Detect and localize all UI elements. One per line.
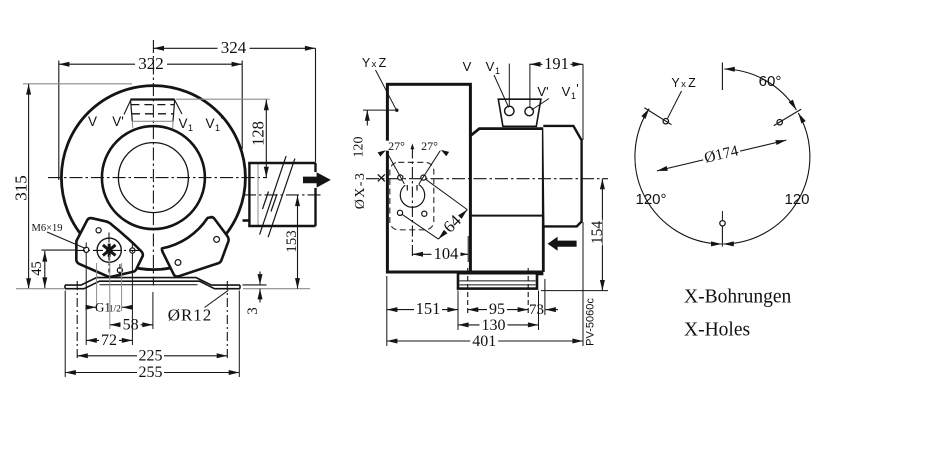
flange left edge	[248, 163, 250, 226]
extension line G-port left	[96, 263, 98, 311]
extension line plate right end	[238, 291, 240, 378]
G-port circle	[97, 238, 121, 262]
svg-text:324: 324	[221, 38, 247, 57]
extension line right of 324	[315, 48, 317, 162]
radial tick top	[721, 63, 723, 91]
extension line 191 left	[529, 64, 531, 108]
bolt hole top-right	[777, 120, 782, 125]
top port dashed line upper	[131, 104, 174, 106]
dim 72	[86, 332, 132, 349]
svg-text:128: 128	[248, 121, 267, 146]
centerline horizontal left view	[48, 177, 267, 179]
leader V-prime to terminal 2	[532, 99, 550, 111]
terminal 1	[505, 106, 514, 115]
svg-text:V': V'	[112, 114, 124, 129]
skid bolt centerline right	[527, 268, 529, 315]
leader M6x19	[47, 232, 86, 249]
duct break tick 2	[271, 194, 277, 212]
dim 324 horizontal	[153, 38, 315, 57]
svg-text:1: 1	[188, 123, 193, 133]
label V1-prime left view	[205, 113, 222, 133]
skid block	[458, 273, 537, 288]
leader YxZ middle	[376, 70, 397, 110]
svg-text:60°: 60°	[759, 73, 782, 90]
leader YxZ right	[668, 91, 682, 119]
svg-text:1/2: 1/2	[109, 305, 121, 315]
label V left view	[88, 114, 97, 129]
svg-text:': '	[220, 113, 223, 128]
extension line skid bottom right	[541, 290, 608, 292]
extension line plate bottom left	[16, 288, 64, 290]
dim 153 vertical	[284, 196, 300, 289]
dim 64 line	[438, 210, 467, 240]
dim 64 extension 1	[426, 179, 468, 209]
extension line plate left end	[64, 291, 66, 378]
leader port to V1	[175, 100, 183, 114]
cover plate rectangle	[387, 84, 470, 272]
svg-text:73: 73	[529, 302, 544, 318]
bolt slot centerline left	[76, 281, 78, 360]
svg-text:153: 153	[284, 230, 300, 253]
hole mark dot	[395, 109, 398, 112]
label 27deg left	[385, 139, 408, 153]
skid inner line 2	[460, 284, 536, 286]
angle arrow left	[378, 150, 386, 156]
label V-prime middle view	[537, 84, 548, 99]
skid bolt centerline left	[467, 268, 469, 315]
G-port star symbol	[103, 244, 116, 257]
extension line hole level 45	[42, 249, 81, 251]
duct break line 2	[268, 159, 295, 238]
label YxZ middle view	[362, 56, 387, 70]
svg-text:120: 120	[784, 191, 809, 208]
skid inner line 1	[460, 280, 536, 282]
label M6x19	[31, 223, 62, 234]
label X-Bohrungen	[684, 287, 791, 308]
duct bottom edge	[248, 225, 315, 227]
extension line port top right	[176, 98, 270, 100]
label V1 middle view	[486, 59, 500, 76]
dim 401	[387, 333, 583, 350]
svg-text:154: 154	[589, 221, 606, 245]
body top edge	[470, 129, 543, 136]
port bore dash left	[406, 185, 408, 191]
angle apex arrow	[411, 143, 415, 149]
label V1-prime middle view	[562, 81, 579, 101]
top port dashed line lower	[132, 113, 173, 115]
extension line plate top right	[243, 284, 267, 286]
svg-text:72: 72	[101, 332, 117, 349]
radial tick hole B	[774, 109, 801, 125]
dim 322 horizontal	[59, 54, 242, 73]
foot hole D	[130, 248, 135, 253]
svg-text:V: V	[178, 116, 187, 131]
centerline vertical left view	[152, 40, 154, 286]
dim 3 vertical	[245, 272, 261, 315]
svg-text:x: x	[681, 79, 686, 90]
svg-text:3: 3	[245, 307, 261, 315]
label V-prime left view	[112, 114, 124, 129]
svg-text:X-Holes: X-Holes	[684, 320, 750, 341]
svg-text:130: 130	[482, 317, 506, 334]
label diameter X-3	[353, 172, 368, 209]
svg-text:V: V	[562, 84, 571, 99]
foot hole E	[214, 237, 220, 243]
dim 64 extension 2	[402, 214, 439, 239]
svg-text:': '	[576, 81, 578, 96]
dim 255	[65, 364, 239, 381]
label 60deg	[759, 73, 782, 90]
terminal 2	[525, 107, 534, 116]
base plate bottom profile	[65, 281, 240, 289]
svg-text:45: 45	[29, 261, 45, 276]
label R12	[168, 306, 213, 325]
foot hole A	[96, 228, 101, 233]
foot hole B	[84, 247, 89, 252]
base plate right end	[239, 285, 241, 289]
label V middle view	[463, 59, 472, 74]
svg-text:x: x	[372, 59, 377, 70]
svg-text:V: V	[463, 59, 472, 74]
extension line port center	[109, 255, 111, 329]
machine centerline middle view	[366, 178, 608, 180]
svg-text:Z: Z	[688, 76, 696, 90]
dim 104	[412, 244, 468, 263]
extension line top of housing	[23, 83, 132, 85]
svg-text:V': V'	[537, 84, 548, 99]
bolt slot centerline right	[226, 281, 228, 360]
top port trapezoid	[131, 100, 175, 129]
leader R12	[205, 290, 229, 307]
base plate middle edge	[100, 284, 198, 286]
svg-text:255: 255	[139, 364, 163, 381]
svg-text:PV-5060c: PV-5060c	[584, 298, 596, 346]
body right edge	[542, 129, 545, 272]
foot centerline horizontal	[75, 249, 140, 251]
radial tick bottom	[721, 211, 723, 247]
svg-text:V: V	[205, 116, 214, 131]
svg-text:401: 401	[472, 333, 496, 350]
terminal box	[498, 99, 541, 126]
svg-text:V: V	[88, 114, 97, 129]
dim 58	[110, 316, 153, 333]
boss bottom edge	[243, 219, 250, 222]
extension line cover left bottom	[386, 276, 388, 346]
hole B centerline dash	[85, 243, 87, 249]
svg-text:1: 1	[571, 91, 576, 101]
extension line 191-401 right	[582, 64, 584, 346]
extension line 104 right	[467, 236, 469, 262]
angle line left	[386, 150, 405, 184]
svg-text:27°: 27°	[388, 139, 405, 153]
duct right edge	[314, 163, 316, 226]
extension line left 322	[58, 61, 60, 181]
svg-text:V: V	[486, 59, 495, 74]
dim 73	[529, 302, 558, 318]
angle line right	[419, 150, 441, 184]
svg-text:X-Bohrungen: X-Bohrungen	[684, 287, 791, 308]
duct break line 1	[260, 156, 287, 235]
dim 95	[468, 301, 529, 318]
dim 225	[77, 347, 227, 364]
dim 130	[458, 317, 539, 334]
foot centerline vertical	[108, 233, 110, 273]
dim G1-1/2	[87, 300, 131, 315]
svg-text:ØR12: ØR12	[168, 306, 213, 325]
label V1 left view	[178, 116, 193, 133]
svg-text:1: 1	[495, 66, 500, 76]
base plate left end	[64, 285, 66, 289]
label YxZ right view	[671, 76, 696, 90]
extension line body right bottom	[544, 279, 546, 315]
housing inner circle	[118, 143, 188, 213]
body joint line	[470, 215, 543, 217]
port bore circle	[400, 185, 424, 208]
duct top edge	[248, 162, 315, 164]
outlet flow arrow	[303, 172, 331, 187]
svg-text:104: 104	[434, 244, 459, 263]
svg-text:Y: Y	[671, 76, 680, 90]
leader V1 to terminal 1	[494, 75, 509, 108]
svg-text:225: 225	[139, 347, 163, 364]
housing mid circle	[102, 126, 205, 229]
silencer block	[543, 126, 581, 226]
extension line duct bottom right	[243, 288, 310, 290]
port bore dash right	[416, 185, 418, 191]
extension line hole D	[131, 254, 133, 346]
svg-text:27°: 27°	[421, 139, 438, 153]
label 120	[784, 191, 809, 208]
extension line skid left	[457, 291, 459, 331]
svg-text:Y: Y	[362, 56, 371, 70]
arc 60deg	[724, 69, 796, 110]
outlet centerline	[243, 194, 321, 196]
svg-text:Z: Z	[379, 56, 387, 70]
dim 120 vertical	[352, 110, 368, 157]
label x mark	[378, 174, 385, 181]
label PV-5060c	[584, 298, 596, 346]
right foot	[162, 217, 229, 276]
port flange dashed outline	[390, 162, 434, 229]
extension line hole level	[363, 109, 397, 111]
extension line hole B	[85, 253, 87, 346]
base plate top profile	[65, 278, 240, 286]
dim 151	[387, 299, 458, 318]
extension line G-port right	[121, 263, 123, 311]
dim diameter 174	[657, 140, 786, 171]
flange hole 1	[398, 175, 403, 180]
leader V-prime to port	[124, 100, 131, 115]
svg-text:322: 322	[138, 54, 164, 73]
svg-text:120°: 120°	[635, 191, 666, 208]
body bottom edge	[470, 271, 543, 274]
left foot	[76, 218, 143, 277]
dim 191	[530, 54, 583, 73]
svg-text:151: 151	[416, 299, 441, 318]
flange hole 4	[422, 211, 427, 216]
svg-text:95: 95	[489, 301, 505, 318]
terminal box center line	[508, 64, 510, 107]
svg-text:ØX-3: ØX-3	[353, 172, 368, 209]
arc 120deg left	[635, 109, 722, 244]
port centerline vertical	[411, 148, 413, 260]
duct break tick 1	[263, 192, 269, 210]
svg-text:315: 315	[12, 175, 31, 201]
flange hole 3	[397, 210, 402, 215]
dim 128 vertical	[248, 100, 267, 178]
dim 45 vertical	[29, 251, 45, 288]
flange hole 2	[421, 175, 426, 180]
radial tick hole A	[644, 108, 671, 125]
label 120deg	[635, 191, 666, 208]
extension line right 322	[241, 61, 243, 150]
inlet flow arrow	[548, 237, 577, 251]
hole C centerline dash	[119, 264, 121, 278]
extension line main center bottom	[152, 292, 154, 329]
angle arrow right	[441, 150, 449, 156]
skid top step	[537, 273, 543, 275]
svg-text:58: 58	[123, 316, 139, 333]
flange face line	[257, 163, 259, 226]
hole D centerline dash	[131, 243, 133, 252]
extension line skid right	[538, 291, 540, 331]
svg-text:120: 120	[352, 137, 367, 158]
dim 154 vertical	[589, 179, 606, 291]
label X-Holes	[684, 320, 750, 341]
bolt hole top-left	[663, 119, 668, 124]
dim 315 vertical	[12, 84, 31, 289]
arc 120 right	[723, 113, 810, 244]
housing outer circle	[61, 86, 245, 270]
label 27deg right	[418, 139, 441, 153]
bolt hole bottom	[720, 221, 725, 226]
svg-text:191: 191	[544, 54, 569, 73]
foot hole F	[175, 260, 181, 266]
foot hole C	[117, 268, 122, 273]
